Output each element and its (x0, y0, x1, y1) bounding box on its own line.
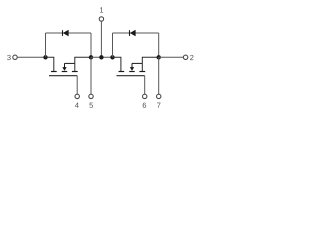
pin 2 label (190, 55, 193, 60)
wire node B2 to pin 2 (159, 56, 184, 58)
pin 4 terminal circle (75, 94, 79, 98)
node pin1-rail junction dot (99, 55, 103, 59)
wire node A1 to Q1 drain lead (46, 57, 54, 71)
Q1 drain contact bar (51, 71, 57, 73)
Q1 substrate arrow (points to channel) (63, 63, 75, 70)
pin 7 terminal circle (157, 94, 161, 98)
diode D2 right leg (158, 33, 160, 57)
transistor Q1 channel bars (N-ch MOSFET, JIS style) (51, 71, 78, 73)
pin 6 terminal circle (143, 94, 147, 98)
Q2 gate electrode (117, 75, 145, 77)
wire node A2 down to pin 5 (90, 57, 92, 94)
node B1 junction dot (110, 55, 114, 59)
transistor Q2 channel bars (N-ch MOSFET, JIS style) (119, 71, 146, 73)
diode D1 symbol (cathode bar + triangle pointing left) (63, 30, 69, 36)
pin 4 label (75, 103, 79, 108)
pin 6 label (143, 103, 146, 108)
diode D1 loop left leg (45, 33, 47, 57)
wire pin 1 down to rail (100, 22, 102, 58)
Q1 source contact bar (72, 71, 78, 73)
pin 3 label (7, 55, 11, 60)
Q2 substrate arrow (points to channel) (130, 63, 142, 70)
pin 5 terminal circle (89, 94, 93, 98)
pin 1 label (100, 7, 103, 12)
pin 5 label (89, 103, 93, 108)
node B2 junction dot (157, 55, 161, 59)
diode D2 loop left leg (112, 33, 114, 57)
node A2 junction dot (89, 55, 93, 59)
diode D2 symbol (cathode bar + triangle pointing left) (130, 30, 136, 36)
wire Q1 gate down to pin 4 (76, 76, 78, 95)
diode D1 top wire (46, 32, 92, 34)
node A1 junction dot (43, 55, 47, 59)
pin 7 label (157, 103, 160, 108)
Q1 substrate contact bar (62, 71, 67, 73)
wire node B1 to Q2 drain lead (113, 57, 121, 71)
wire pin3 to node A1 (17, 56, 45, 58)
wire common rail A2 to B1 (91, 56, 113, 58)
pin 1 terminal circle (99, 17, 103, 21)
Q2 drain contact bar (119, 71, 125, 73)
Q1 gate electrode (49, 75, 77, 77)
pin 3 terminal circle (13, 55, 17, 59)
Q2 source contact bar (139, 71, 145, 73)
Q1 source lead (75, 57, 91, 71)
wire node B2 down to pin 7 (158, 57, 160, 94)
wire Q2 gate down to pin 6 (144, 76, 146, 95)
Q2 source lead (142, 57, 158, 71)
pin 2 terminal circle (183, 55, 187, 59)
diode D1 right leg (90, 33, 92, 57)
Q2 substrate contact bar (129, 71, 135, 73)
diode D2 top wire (113, 32, 159, 34)
